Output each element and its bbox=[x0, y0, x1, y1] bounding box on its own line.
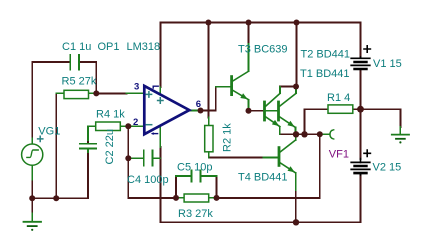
svg-text:R4 1k: R4 1k bbox=[96, 109, 125, 121]
T1 collector lead vertical bbox=[295, 87, 297, 94]
svg-text:T4 BD441: T4 BD441 bbox=[238, 172, 288, 184]
R2 bottom lead bbox=[208, 152, 210, 158]
op-amp pin7 power mark bbox=[153, 86, 158, 88]
op-amp pin2 lead bbox=[128, 125, 144, 127]
T3 emitter lead vertical bbox=[248, 100, 250, 111]
wire T4 emitter to bottom rail bbox=[295, 190, 297, 222]
battery V1 plus mark bbox=[364, 46, 370, 52]
T4 emitter lead vertical bbox=[295, 173, 297, 190]
junction rail to R2 column bbox=[205, 20, 211, 26]
component lead stubs green bbox=[32, 44, 400, 221]
VG1 top lead bbox=[31, 139, 33, 145]
T4 base lead bbox=[263, 157, 277, 159]
svg-text:2: 2 bbox=[133, 117, 138, 128]
C2 bottom lead bbox=[87, 148, 89, 152]
node C probe tap bbox=[317, 131, 323, 137]
op-amp U1 OP1 LM318 triangle bbox=[144, 86, 189, 135]
capacitor C1 1u plates bbox=[70, 55, 200, 182]
op-amp pin4 power mark bbox=[152, 133, 157, 135]
svg-text:R3 27k: R3 27k bbox=[178, 208, 213, 220]
svg-text:R5 27k: R5 27k bbox=[62, 76, 97, 88]
node VG1 minus ground bbox=[29, 195, 35, 201]
svg-text:V2 15: V2 15 bbox=[373, 162, 402, 174]
transistor T1 BD441 bbox=[279, 93, 297, 127]
svg-text:VF1: VF1 bbox=[329, 149, 349, 161]
wire rail down to T3 collector bbox=[248, 23, 250, 45]
R5 right lead bbox=[89, 92, 97, 94]
node R5 bottom bbox=[53, 195, 59, 201]
capacitor C2 22u plates bbox=[80, 144, 96, 149]
wire C5 right corner down to feedback dot bbox=[216, 176, 218, 198]
R2 top lead bbox=[208, 118, 210, 126]
wire emitters output node row bbox=[280, 133, 320, 135]
VG1 bottom lead bbox=[31, 165, 33, 179]
ground left stem bbox=[31, 214, 33, 222]
wire T3 emitter node to T1 T2 bases bbox=[249, 110, 264, 112]
node battery midpoint R1 bbox=[357, 106, 364, 113]
R4 right lead bbox=[121, 125, 129, 127]
T3 base lead bbox=[216, 86, 231, 88]
svg-text:C5 10p: C5 10p bbox=[177, 162, 212, 174]
T4 collector lead vertical bbox=[295, 134, 297, 140]
R5 left lead bbox=[56, 92, 64, 94]
R4 left lead to C2 bbox=[88, 126, 96, 140]
resistor R5 27k bbox=[64, 90, 353, 202]
capacitor C5 10p plates bbox=[192, 170, 201, 182]
C4 right lead joining pin4 column bbox=[153, 157, 161, 159]
resistor R4 1k bbox=[96, 122, 121, 131]
op-amp plus mark power bbox=[158, 98, 163, 103]
node B R1 tap bbox=[301, 131, 307, 137]
junction rail to T3 collector bbox=[246, 20, 252, 26]
svg-text:V1 15: V1 15 bbox=[373, 58, 402, 70]
op-amp pin3 lead bbox=[127, 92, 145, 94]
node C4 tap bbox=[125, 155, 131, 161]
source VG1 circle bbox=[22, 136, 43, 165]
svg-text:R2 1k: R2 1k bbox=[221, 123, 233, 152]
wire R5 left down to ground node bbox=[55, 93, 57, 198]
source VG1 plus mark bbox=[38, 136, 43, 141]
transistor T3 BC639 bbox=[232, 71, 249, 99]
svg-text:3: 3 bbox=[134, 82, 139, 93]
wire battery column V1 to V2 bbox=[360, 71, 362, 160]
wire VG1 top up and right to C1 bbox=[32, 62, 70, 139]
probe VF1 clip bbox=[330, 130, 334, 139]
capacitor C4 100p plates bbox=[144, 151, 153, 166]
resistor R3 27k bbox=[184, 194, 209, 202]
resistor R1 4 bbox=[328, 105, 353, 113]
junction rail to T1 T2 collectors bbox=[294, 20, 300, 26]
wire C1 right to pin3 node bbox=[79, 62, 126, 93]
R3 right lead bbox=[209, 197, 217, 199]
C4 left lead bbox=[128, 157, 143, 159]
node pin3 R5 C1 bbox=[93, 90, 99, 96]
C5 left lead bbox=[176, 175, 191, 177]
wire C2 bottom corner bbox=[87, 152, 89, 198]
node pin6 output bbox=[198, 108, 204, 114]
wire VG1 bottom to ground node row bbox=[32, 180, 88, 214]
svg-text:LM318: LM318 bbox=[127, 41, 161, 53]
node pin2 R4 bbox=[125, 123, 131, 129]
transistor T4 BD441 bbox=[279, 140, 296, 173]
svg-text:6: 6 bbox=[196, 99, 201, 110]
op-amp pin6 lead bbox=[190, 110, 201, 112]
svg-text:C4 100p: C4 100p bbox=[127, 174, 169, 186]
wire rail down to T1 T2 collectors bbox=[296, 23, 298, 87]
wire R1 right to battery column bbox=[353, 109, 401, 127]
op-amp pin7 lead bbox=[159, 87, 161, 94]
battery V2 15 bbox=[351, 150, 370, 175]
svg-text:T2 BD441: T2 BD441 bbox=[301, 49, 351, 61]
wire C5 left corner down bbox=[175, 176, 177, 198]
T3 collector lead vertical bbox=[248, 44, 250, 71]
T2 emitter lead vertical bbox=[279, 127, 281, 135]
transistor T2 BD441 bbox=[265, 93, 281, 126]
T2 collector lead vertical bbox=[279, 87, 281, 93]
wire output node up to R1 left lead bbox=[305, 109, 328, 134]
wire V2 bottom to negative rail bbox=[160, 175, 360, 223]
svg-text:R1 4: R1 4 bbox=[327, 92, 350, 104]
resistor R2 1k bbox=[205, 126, 213, 152]
svg-text:OP1: OP1 bbox=[98, 41, 120, 53]
svg-text:VG1: VG1 bbox=[38, 126, 60, 138]
battery V1 15 bbox=[351, 46, 370, 69]
C5 right lead bbox=[201, 175, 217, 177]
ground right stem bbox=[399, 127, 401, 134]
wire top positive rail bbox=[32, 23, 400, 223]
wire pin2 column down to R3 left node bbox=[128, 126, 176, 198]
wire op-amp output to T3 base corner bbox=[201, 87, 216, 111]
node R3 C5 left bbox=[173, 195, 179, 201]
svg-text:C1 1u: C1 1u bbox=[62, 41, 91, 53]
T1 T2 base tie bar bbox=[266, 110, 277, 112]
wire C2 top to R4 bbox=[87, 140, 89, 144]
node R3 C5 right feedback bbox=[214, 195, 220, 201]
wire R2 bottom to T4 base bbox=[209, 157, 263, 159]
node A emitters T4 collector bbox=[293, 131, 299, 137]
R1 left lead bbox=[327, 108, 329, 110]
wire collectors junction horizontal bbox=[280, 87, 297, 94]
R3 left lead bbox=[176, 197, 184, 199]
node T3 emitter to bases bbox=[246, 108, 252, 114]
op-amp pin4 lead bbox=[159, 126, 161, 147]
op-amp plus mark input bbox=[146, 92, 163, 125]
VF1 probe stub bbox=[320, 133, 329, 135]
node T1 T2 collectors bbox=[293, 84, 299, 90]
wire rail to op-amp pin7 bbox=[159, 23, 161, 88]
wire op-amp pin4 down to negative rail bbox=[159, 147, 161, 222]
battery V2 plus mark bbox=[364, 150, 370, 156]
svg-text:T3 BC639: T3 BC639 bbox=[238, 44, 288, 56]
wire probe node down and left to feedback node bbox=[217, 134, 320, 198]
node T4 emitter negative rail bbox=[293, 219, 299, 225]
ground right symbol bbox=[392, 135, 409, 144]
wire rail down through output wire to R2 top bbox=[207, 23, 209, 118]
ground left symbol bbox=[24, 222, 42, 231]
op-amp minus mark input bbox=[146, 124, 151, 126]
svg-text:C2 22u: C2 22u bbox=[104, 129, 116, 164]
svg-text:T1 BD441: T1 BD441 bbox=[300, 68, 350, 80]
T1 emitter lead vertical bbox=[295, 128, 297, 135]
